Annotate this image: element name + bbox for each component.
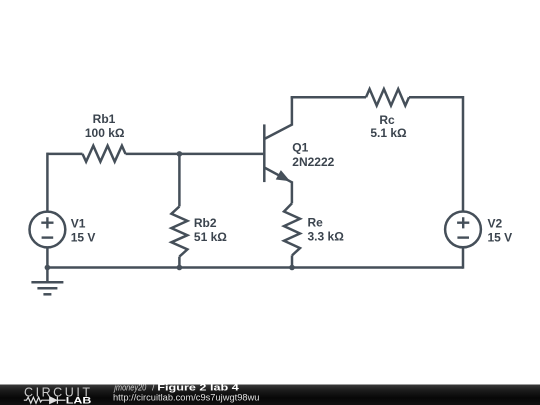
wire Q1 collector up [291, 97, 294, 125]
wire collector to Rc [291, 96, 366, 99]
resistor Re [284, 203, 300, 255]
resistor Rb1 [83, 146, 126, 162]
svg-text:Rc: Rc [379, 113, 395, 127]
label Q1 [292, 141, 334, 169]
svg-text:LAB: LAB [66, 395, 92, 405]
svg-text:2N2222: 2N2222 [292, 155, 334, 169]
label Rb2 [194, 216, 227, 244]
svg-text:3.3 kΩ: 3.3 kΩ [308, 230, 345, 244]
wire bottom rail [47, 266, 463, 269]
wire V1 bottom [46, 248, 49, 268]
svg-text:http://circuitlab.com/c9s7ujwg: http://circuitlab.com/c9s7ujwgt98wu [113, 393, 260, 403]
svg-text:Rb2: Rb2 [194, 216, 217, 230]
wire Rb2 bottom lead [178, 257, 181, 268]
wire Rc to right corner [409, 96, 463, 99]
svg-text:Rb1: Rb1 [93, 112, 116, 126]
node at Rb2-bottom junction [177, 265, 183, 271]
wire Rb1 to Q1 base [126, 153, 264, 156]
svg-text:51 kΩ: 51 kΩ [194, 230, 227, 244]
svg-text:Re: Re [308, 216, 324, 230]
node at Re-bottom junction [289, 265, 295, 271]
wire Re bottom lead [291, 255, 294, 267]
wire top-left from V1 corner to Rb1 [47, 153, 82, 156]
wire Q1 emitter down to Re [291, 181, 294, 203]
voltage source V1 [30, 212, 66, 248]
label Rb1 [85, 112, 125, 140]
transistor Q1 [264, 124, 292, 182]
svg-text:15 V: 15 V [71, 231, 96, 245]
svg-text:V1: V1 [71, 217, 86, 231]
wire left vertical V1 top [46, 153, 49, 211]
svg-text:V2: V2 [488, 217, 503, 231]
svg-text:jmoney20 / Figure 2 lab 4: jmoney20 / Figure 2 lab 4 [113, 383, 238, 393]
svg-text:Q1: Q1 [292, 141, 308, 155]
footer logo circuit line with resistor and diode [24, 397, 66, 404]
voltage source V2 [445, 212, 481, 248]
svg-text:5.1 kΩ: 5.1 kΩ [370, 126, 407, 140]
wire Rb2 top lead [178, 154, 181, 207]
label V2 [488, 217, 513, 245]
svg-text:100 kΩ: 100 kΩ [85, 126, 125, 140]
svg-text:15 V: 15 V [488, 231, 513, 245]
resistor Rb2 [171, 206, 187, 256]
node at Rb1-Rb2 junction [177, 151, 183, 157]
label Rc [370, 113, 407, 140]
label V1 [71, 217, 96, 245]
wire V2 bottom [462, 248, 465, 269]
footer bar [0, 385, 540, 405]
resistor Rc [366, 89, 409, 106]
node at V1-ground junction [45, 265, 51, 271]
label Re [308, 216, 345, 244]
ground [31, 268, 63, 295]
wire right vertical to V2 [462, 96, 465, 211]
